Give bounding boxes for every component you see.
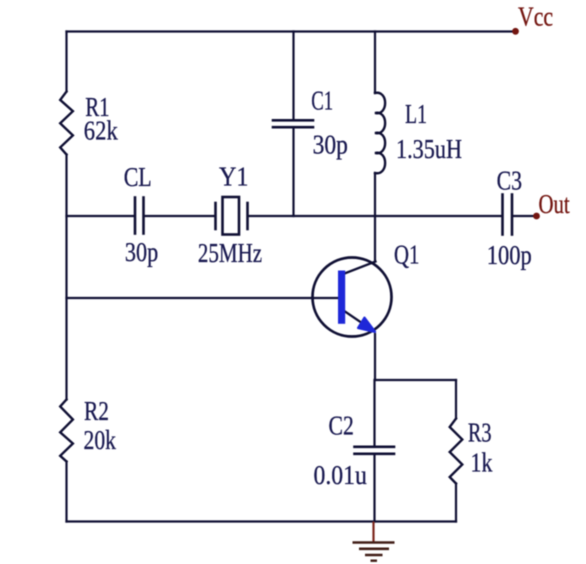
- wire left vertical lower: [65, 462, 67, 522]
- svg-text:100p: 100p: [487, 240, 532, 270]
- svg-text:30p: 30p: [125, 237, 158, 267]
- svg-text:R3: R3: [468, 417, 492, 447]
- svg-text:Q1: Q1: [394, 240, 419, 270]
- svg-text:30p: 30p: [313, 130, 348, 160]
- wire mid rail segment 4 to Out: [513, 215, 537, 217]
- Q1 base bar: [338, 271, 345, 324]
- wire base: [67, 297, 339, 299]
- Q1 emitter diagonal: [342, 310, 373, 331]
- wire C2 lower lead: [373, 455, 375, 522]
- wire R3 lower lead: [455, 484, 457, 522]
- Q1 emitter arrow: [358, 318, 375, 332]
- wire mid rail segment 1: [67, 215, 135, 217]
- wire bottom rail: [67, 520, 457, 522]
- capacitor CL: [135, 198, 144, 234]
- wire C1 branch upper: [292, 32, 294, 120]
- svg-text:CL: CL: [124, 162, 152, 192]
- wire mid rail segment 2: [144, 215, 215, 217]
- Out terminal dot: [533, 213, 540, 220]
- resistor R3: [450, 419, 463, 484]
- svg-text:1k: 1k: [471, 448, 493, 478]
- wire left vertical mid: [65, 155, 67, 400]
- svg-text:R2: R2: [84, 396, 109, 426]
- capacitor C3: [503, 195, 513, 235]
- wire R3 upper lead: [455, 380, 457, 419]
- svg-text:62k: 62k: [84, 116, 118, 146]
- ground: [353, 522, 395, 561]
- svg-text:Out: Out: [539, 189, 571, 219]
- wire emitter vertical: [374, 334, 376, 380]
- svg-text:C1: C1: [311, 86, 333, 116]
- wire L1 branch upper: [374, 32, 376, 94]
- wire L1 branch to collector: [374, 173, 376, 262]
- svg-text:C3: C3: [497, 166, 522, 196]
- wire C2 upper lead: [373, 380, 375, 446]
- resistor R1: [60, 92, 73, 155]
- svg-text:Y1: Y1: [219, 162, 249, 192]
- wire top rail: [67, 30, 516, 32]
- inductor L1: [375, 93, 385, 173]
- svg-text:25MHz: 25MHz: [198, 238, 262, 268]
- Q1 collector diagonal: [342, 262, 376, 275]
- svg-text:0.01u: 0.01u: [314, 460, 368, 490]
- svg-text:1.35uH: 1.35uH: [396, 134, 462, 164]
- wire R3 top branch: [375, 379, 456, 381]
- capacitor C1: [273, 120, 313, 127]
- crystal Y1: [216, 197, 248, 235]
- wire left vertical upper: [65, 32, 67, 92]
- wire mid rail segment 3: [248, 215, 502, 217]
- resistor R2: [60, 400, 73, 462]
- transistor Q1: [313, 258, 392, 337]
- svg-text:Vcc: Vcc: [518, 2, 553, 32]
- capacitor C2: [355, 447, 395, 454]
- svg-text:C2: C2: [329, 411, 354, 441]
- Vcc terminal dot: [512, 28, 519, 35]
- svg-text:L1: L1: [405, 99, 427, 129]
- svg-text:20k: 20k: [84, 425, 117, 455]
- wire C1 branch lower: [292, 129, 294, 217]
